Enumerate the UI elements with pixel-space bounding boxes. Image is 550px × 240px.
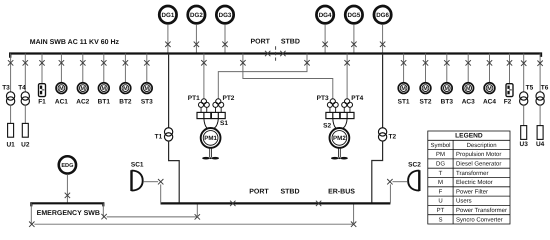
svg-text:DG4: DG4: [319, 12, 332, 19]
svg-text:T3: T3: [2, 84, 10, 91]
wire DG4 riser: [324, 24, 326, 53]
svg-text:F: F: [439, 188, 443, 195]
wire PT4 feed: [346, 54, 348, 100]
svg-text:U2: U2: [21, 141, 30, 148]
breaker DG3 breaker: [222, 42, 227, 47]
svg-text:ST3: ST3: [141, 99, 153, 106]
breaker emergency right tie: [101, 214, 106, 219]
wire mid interconnect: [107, 216, 198, 218]
emergency diesel generator EDG: [59, 156, 76, 173]
wire up to ER-BUS: [353, 203, 355, 224]
legend row F: [439, 188, 488, 195]
breaker ER-BUS bottom tie: [351, 222, 356, 227]
wire T4 to U2: [24, 105, 26, 123]
legend table: [428, 131, 510, 224]
svg-text:PM1: PM1: [204, 135, 217, 142]
wire ST2 drop: [425, 54, 427, 83]
svg-text:Power Filter: Power Filter: [456, 188, 488, 195]
wire T2 feeder lower jog: [372, 141, 383, 203]
diesel generator DG4: [316, 6, 333, 23]
wire T4 drop: [24, 54, 26, 92]
propeller shaft PM2: [339, 148, 341, 158]
main bus MAIN SWB AC 11 KV 60 Hz: [10, 54, 541, 58]
breaker bus tie PORT side: [265, 51, 270, 56]
wire ST1 drop: [403, 54, 405, 83]
wire T5 drop: [523, 54, 525, 92]
breaker DG4 breaker: [322, 42, 327, 47]
legend row M: [438, 179, 493, 186]
wire PT3 feed from PORT: [243, 54, 333, 100]
syncro converter box under PT3: [326, 112, 340, 118]
svg-text:Description: Description: [467, 142, 497, 149]
wire PT2 feed from STBD: [218, 54, 307, 100]
user load U3: [521, 126, 527, 140]
wire T6 drop: [539, 54, 541, 92]
breaker T4: [23, 60, 28, 65]
breaker SC1: [158, 179, 163, 184]
svg-text:BT1: BT1: [98, 99, 111, 106]
svg-text:T2: T2: [389, 133, 397, 140]
svg-text:ST1: ST1: [398, 99, 410, 106]
svg-text:T5: T5: [526, 84, 534, 91]
breaker AC2: [80, 60, 85, 65]
wire F2 drop: [509, 54, 511, 84]
transformer T4: [21, 92, 29, 105]
svg-text:DG5: DG5: [348, 12, 361, 19]
wire F1 drop: [41, 54, 43, 84]
power transformer PT1: [198, 99, 209, 108]
svg-text:DG6: DG6: [376, 12, 389, 19]
svg-text:PM2: PM2: [333, 135, 346, 142]
wire T1 feeder lower jog: [169, 141, 180, 203]
power filter F2: [506, 84, 513, 97]
diesel generator DG5: [345, 6, 362, 23]
propeller PM2: [331, 157, 348, 160]
breaker SC2: [387, 179, 392, 184]
legend row U: [438, 198, 471, 205]
power transformer PT2: [213, 99, 224, 108]
user load U4: [537, 126, 543, 140]
svg-text:S1: S1: [220, 120, 228, 127]
svg-text:Users: Users: [456, 198, 472, 205]
wire emergency right down: [102, 203, 104, 217]
svg-text:EDG: EDG: [61, 163, 73, 169]
svg-text:Diesel Generator: Diesel Generator: [456, 161, 501, 168]
breaker PT2 feed: [304, 60, 309, 65]
svg-text:U: U: [438, 198, 442, 205]
wire BT3 drop: [446, 54, 448, 83]
svg-text:BT3: BT3: [441, 99, 454, 106]
wire SC1 to breaker: [144, 181, 158, 183]
svg-text:PT: PT: [437, 207, 445, 214]
svg-text:F1: F1: [38, 98, 46, 105]
transformer T2: [378, 128, 386, 141]
breaker DG6 breaker: [380, 42, 385, 47]
electric motor ST2: [420, 83, 431, 94]
wire ST3 drop: [146, 54, 148, 83]
svg-text:AC1: AC1: [55, 99, 68, 106]
breaker BT3: [444, 60, 449, 65]
wire S2 stubs: [330, 107, 336, 112]
breaker lower bus bottom tie: [195, 214, 200, 219]
power transformer PT4: [342, 99, 353, 108]
wire up to lower bus: [196, 203, 198, 217]
legend row DG: [436, 161, 501, 168]
svg-text:T6: T6: [541, 84, 549, 91]
breaker AC1: [59, 60, 64, 65]
wire S1 stubs: [215, 107, 221, 112]
transformer T5: [520, 92, 528, 105]
power transformer PT3: [327, 99, 338, 108]
wire AC3 drop: [467, 54, 469, 83]
breaker BT1: [101, 60, 106, 65]
svg-text:STBD: STBD: [281, 38, 300, 45]
svg-text:Electric Motor: Electric Motor: [456, 179, 493, 186]
breaker F2: [507, 60, 512, 65]
wire DG2 riser: [195, 24, 197, 53]
syncro converter box under PT4: [340, 112, 354, 118]
wire SC2 breaker to bus: [389, 184, 391, 203]
svg-text:PM: PM: [436, 151, 445, 158]
breaker PT1 feed: [201, 60, 206, 65]
svg-text:DG1: DG1: [162, 12, 175, 19]
breaker ST1: [401, 60, 406, 65]
wire T2 feeder upper: [382, 54, 384, 128]
wire T1 feeder upper: [168, 54, 170, 128]
electric motor BT1: [98, 83, 109, 94]
breaker emergency left tie: [29, 222, 34, 227]
breaker T5: [521, 61, 526, 66]
electric motor BT2: [120, 83, 131, 94]
wire AC4 drop: [489, 54, 491, 83]
svg-text:T: T: [439, 170, 443, 177]
legend row Symbol: [430, 142, 496, 149]
svg-text:F2: F2: [504, 98, 512, 105]
svg-text:DG3: DG3: [219, 12, 232, 19]
svg-text:Propulsion Motor: Propulsion Motor: [456, 151, 501, 158]
wire T3 to U1: [10, 105, 12, 123]
breaker DG2 breaker: [194, 42, 199, 47]
electric motor ST1: [398, 83, 409, 94]
svg-text:DG2: DG2: [190, 12, 203, 19]
wire DG5 riser: [353, 24, 355, 53]
breaker DG5 breaker: [351, 42, 356, 47]
emergency bus EMERGENCY SWB: [31, 203, 103, 206]
legend row PT: [437, 207, 507, 214]
propulsion motor PM2: [330, 128, 350, 148]
svg-text:PT3: PT3: [317, 95, 329, 102]
svg-text:DG: DG: [436, 161, 445, 168]
svg-text:AC4: AC4: [483, 99, 496, 106]
breaker lower bus tie 2: [316, 201, 321, 206]
svg-text:AC2: AC2: [76, 99, 89, 106]
wire T6 to U4: [539, 105, 541, 125]
syncro converter box under PT2: [211, 112, 225, 118]
svg-text:Power Transformer: Power Transformer: [456, 207, 507, 214]
breaker PT3 feed: [240, 60, 245, 65]
wire T5 to U3: [523, 105, 525, 125]
svg-text:S: S: [438, 216, 442, 223]
breaker lower bus tie 1: [230, 201, 235, 206]
svg-text:PT1: PT1: [188, 95, 200, 102]
wire BT2 drop: [124, 54, 126, 83]
wire S2 converge right: [342, 119, 347, 129]
wire S2 converge left: [333, 119, 337, 129]
svg-text:PORT: PORT: [250, 38, 270, 45]
transformer T6: [536, 92, 544, 105]
svg-text:U3: U3: [520, 141, 529, 148]
wire DG6 riser: [382, 24, 384, 53]
power filter F1: [39, 84, 46, 97]
breaker BT2: [123, 60, 128, 65]
transformer T1: [164, 128, 172, 141]
electric motor AC2: [77, 83, 88, 94]
wire S2 stubs: [344, 107, 350, 112]
svg-text:STBD: STBD: [280, 189, 299, 196]
breaker T6: [537, 61, 542, 66]
wire S1 stubs: [201, 107, 207, 112]
svg-text:LEGEND: LEGEND: [455, 133, 483, 140]
user load U2: [22, 123, 28, 137]
propulsion motor PM1: [201, 128, 221, 148]
breaker F1: [39, 60, 44, 65]
breaker ST2: [423, 60, 428, 65]
svg-text:T4: T4: [18, 84, 26, 91]
propeller shaft PM1: [210, 148, 212, 158]
svg-text:ER-BUS: ER-BUS: [328, 189, 355, 196]
legend row PM: [436, 151, 501, 158]
wire DG3 riser: [224, 24, 226, 53]
svg-text:Symbol: Symbol: [430, 142, 450, 149]
propeller PM1: [202, 157, 219, 160]
svg-text:PT4: PT4: [351, 95, 363, 102]
svg-text:SC1: SC1: [131, 162, 144, 169]
svg-text:U4: U4: [536, 141, 545, 148]
breaker ST3: [144, 60, 149, 65]
breaker AC4: [487, 60, 492, 65]
wire BT1 drop: [103, 54, 105, 83]
svg-text:PORT: PORT: [249, 189, 269, 196]
wire T3 drop: [10, 54, 12, 92]
svg-text:MAIN SWB AC 11 KV 60 Hz: MAIN SWB AC 11 KV 60 Hz: [30, 39, 120, 46]
wire bottom interconnect: [34, 223, 353, 225]
transformer T3: [6, 92, 14, 105]
svg-text:S2: S2: [323, 123, 331, 130]
wire SC1 breaker to bus: [160, 184, 162, 203]
svg-text:T1: T1: [155, 133, 163, 140]
svg-text:Transformer: Transformer: [456, 170, 488, 177]
wire emergency left down: [30, 203, 32, 224]
wire DG1 riser: [167, 24, 169, 53]
electric motor AC3: [463, 83, 474, 94]
svg-text:U1: U1: [6, 141, 15, 148]
lower distribution bus PORT/STBD/ER: [161, 202, 391, 204]
svg-text:M: M: [438, 179, 443, 186]
user load U1: [8, 123, 14, 137]
electric motor BT3: [441, 83, 452, 94]
svg-text:SC2: SC2: [408, 162, 421, 169]
breaker bus tie STBD side: [280, 51, 285, 56]
breaker AC3: [466, 60, 471, 65]
electric motor AC4: [484, 83, 495, 94]
diesel generator DG1: [159, 6, 176, 23]
svg-text:EMERGENCY SWB: EMERGENCY SWB: [37, 210, 100, 217]
wire S1 converge left: [204, 119, 208, 129]
wire AC2 drop: [82, 54, 84, 83]
diesel generator DG2: [188, 6, 205, 23]
svg-text:Syncro Converter: Syncro Converter: [456, 216, 503, 223]
wire EDG drop: [66, 174, 68, 203]
syncro converter SC2: [408, 170, 419, 191]
legend row S: [438, 216, 502, 223]
bus tie dashed link: [275, 46, 277, 61]
breaker DG1 breaker: [165, 42, 170, 47]
svg-text:BT2: BT2: [119, 99, 132, 106]
breaker EDG: [65, 193, 70, 198]
wire SC2 to breaker: [393, 181, 408, 183]
svg-text:ST2: ST2: [420, 99, 432, 106]
svg-text:AC3: AC3: [462, 99, 475, 106]
diesel generator DG6: [374, 6, 391, 23]
svg-text:PT2: PT2: [223, 95, 235, 102]
syncro converter box under PT1: [197, 112, 211, 118]
wire PT1 feed: [203, 54, 205, 100]
wire S1 converge right: [213, 119, 218, 129]
legend row T: [439, 170, 489, 177]
breaker T3: [8, 60, 13, 65]
wire AC1 drop: [60, 54, 62, 83]
syncro converter SC1: [132, 170, 143, 191]
electric motor ST3: [141, 83, 152, 94]
breaker PT4 feed: [344, 60, 349, 65]
electric motor AC1: [56, 83, 67, 94]
diesel generator DG3: [216, 6, 233, 23]
